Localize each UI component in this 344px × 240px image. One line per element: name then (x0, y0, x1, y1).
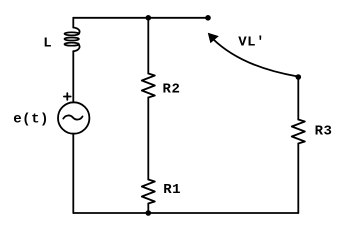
arrow VL' head (208, 33, 219, 43)
wire middle branch above R2 (147, 18, 149, 74)
label e(t) (13, 111, 49, 127)
wire middle branch below R1 (147, 204, 149, 214)
label R1 (163, 182, 181, 198)
node bottom junction at R1 branch (146, 210, 152, 216)
wire bottom horizontal (73, 212, 298, 214)
wire middle branch between R2 and R1 (147, 98, 149, 180)
resistor R1 (142, 180, 155, 204)
svg-text:VL': VL' (238, 35, 265, 51)
node top right end of wire (205, 15, 211, 21)
wire left branch upper segment (72, 18, 74, 28)
label R3 (315, 124, 333, 140)
resistor R2 (142, 74, 155, 98)
wire left branch between inductor and source (72, 51, 74, 102)
svg-text:R3: R3 (315, 124, 333, 140)
label L (43, 36, 52, 52)
node right branch top (296, 74, 302, 80)
voltage source e(t) plus sign (64, 93, 71, 100)
arrow VL' curved shaft (213, 39, 297, 77)
svg-text:R1: R1 (163, 182, 181, 198)
wire top horizontal (73, 17, 208, 19)
wire left branch below source (72, 134, 74, 213)
label R2 (163, 81, 181, 97)
node top junction at R2 branch (146, 15, 152, 21)
wire right branch above R3 (297, 77, 299, 120)
voltage source e(t) circle with sine (58, 102, 89, 133)
wire right branch below R3 (297, 144, 299, 214)
resistor R3 (292, 120, 305, 144)
svg-text:e(t): e(t) (13, 111, 49, 127)
label VL' (238, 35, 265, 51)
inductor L (65, 28, 80, 52)
svg-text:R2: R2 (163, 81, 181, 97)
svg-text:L: L (43, 36, 52, 52)
